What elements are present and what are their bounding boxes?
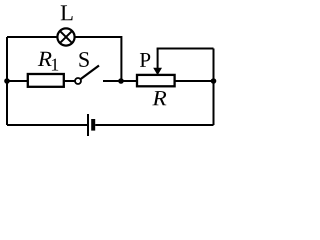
label P (140, 53, 150, 67)
wire left vertical (6, 37, 8, 125)
wire right vertical (213, 49, 215, 126)
rheostat wiper P arrow (153, 49, 162, 76)
node junction on left wire (4, 78, 10, 84)
wire junction to rheostat (121, 80, 137, 82)
wire wiper top horizontal (157, 48, 214, 50)
label S (79, 52, 88, 67)
resistor R1 (28, 74, 64, 87)
wire middle branch left (7, 80, 28, 82)
wire rheostat to right (175, 80, 214, 82)
battery long plate (87, 114, 89, 136)
switch S (75, 66, 99, 85)
label R1 (38, 52, 52, 66)
wire resistor to switch (63, 80, 75, 82)
rheostat R body (137, 75, 175, 86)
lamp L (57, 28, 74, 45)
label R (152, 91, 166, 105)
node junction left of rheostat (118, 78, 124, 84)
label L (61, 5, 73, 20)
wire switch to junction (103, 80, 121, 82)
node junction right of rheostat (211, 78, 217, 84)
wire right vertical of lamp loop (120, 36, 122, 81)
battery short plate (91, 119, 95, 131)
wire bottom right (95, 124, 213, 126)
wire bottom left (7, 124, 87, 126)
wire top branch (7, 36, 121, 38)
